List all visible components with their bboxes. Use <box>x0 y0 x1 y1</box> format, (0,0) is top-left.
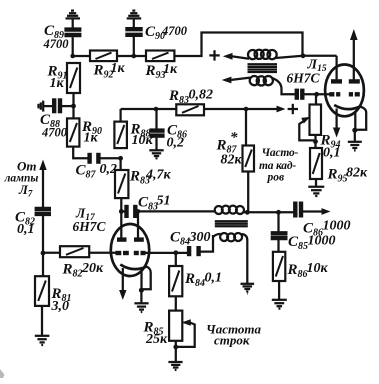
plus sign top left of transformer T1 <box>209 50 219 60</box>
transformer T1 bottom winding <box>250 76 273 86</box>
svg-text:1к: 1к <box>111 61 126 76</box>
wire T2 bottom coil right to chassis ground <box>242 234 248 283</box>
chassis ground down at T2 <box>241 284 255 294</box>
L17 anode right <box>134 237 144 241</box>
tube U-P15 envelope <box>325 65 364 117</box>
capacitor C88 <box>40 98 72 139</box>
wire T1 top coil to node <box>276 56 304 58</box>
wire R93 to top corner rail <box>174 33 302 57</box>
capacitor C85 1000 <box>271 233 336 252</box>
wire rail to R87 <box>245 109 247 146</box>
wire node to anode lead <box>303 55 337 57</box>
ground under R81 <box>35 336 50 345</box>
L17 cathode left lead arrow down <box>122 268 124 291</box>
svg-text:*: * <box>230 130 238 146</box>
wire R87 to T2 <box>247 172 249 213</box>
resistor R85 25k (pot) <box>143 311 183 347</box>
wire T2 top coil right to node <box>244 211 294 213</box>
input arrow from lamp L7 <box>39 160 46 171</box>
svg-text:3,0: 3,0 <box>51 299 70 314</box>
svg-text:10к: 10к <box>307 261 329 276</box>
svg-text:4700: 4700 <box>43 37 70 51</box>
grid capacitor of tube P15 <box>297 89 303 100</box>
node C83 right <box>136 209 141 214</box>
svg-text:1к: 1к <box>163 62 178 77</box>
node T2/R87 <box>245 210 250 215</box>
ground under R86 <box>272 300 287 309</box>
node R85 bottom <box>173 345 178 350</box>
wire C89 to node <box>72 37 74 56</box>
wire node to R92 <box>73 55 90 57</box>
capacitor C83 51 <box>127 194 171 219</box>
capacitor C84 300 <box>170 230 211 257</box>
svg-text:82к: 82к <box>346 166 368 181</box>
resistor R86 10k <box>273 252 329 281</box>
ground under R85 <box>168 362 182 370</box>
L17 grid right dashes <box>134 251 146 255</box>
L17 cathode arc <box>120 265 147 270</box>
ground under L17 cathode <box>134 303 148 312</box>
node under C90 <box>132 54 137 59</box>
capacitor C86 1000 <box>295 202 350 239</box>
svg-text:строк: строк <box>214 333 250 348</box>
svg-text:82к: 82к <box>221 153 243 168</box>
resistor R90 1k <box>67 118 102 146</box>
resistor R88 10k <box>114 122 153 149</box>
node grid/R94 <box>314 92 319 97</box>
svg-text:4700: 4700 <box>41 126 68 140</box>
wire C90 top stem <box>133 19 135 27</box>
node P15 cathode ground <box>352 128 357 133</box>
node C85 <box>276 210 281 215</box>
wire C89 top stem <box>72 19 74 27</box>
resistor R82 20k <box>60 246 104 279</box>
wire R91 bottom to C88 node <box>72 93 74 118</box>
R85 wiper arrow <box>181 319 191 326</box>
transformer T1 top winding <box>248 50 277 60</box>
tube U-L17 envelope <box>111 224 149 276</box>
wire R88 top to rail <box>119 109 121 122</box>
wire to ground <box>140 290 142 303</box>
arrow left T1 secondary <box>222 77 232 84</box>
P15 grid right dashes <box>349 92 360 96</box>
node transformer1/anode <box>301 53 306 58</box>
R85 bottom stem <box>175 341 177 361</box>
svg-text:4,7к: 4,7к <box>145 168 172 183</box>
svg-text:0,1: 0,1 <box>17 222 35 237</box>
wire node A to R82 <box>43 252 60 254</box>
wire C84 right to T2 bottom coil <box>200 235 213 252</box>
wire C86a stem <box>155 109 157 129</box>
svg-text:От: От <box>17 159 37 174</box>
node R87 on rail <box>244 107 249 112</box>
wire R90 bottom to C87 <box>73 147 87 159</box>
node A (C82/R82/R81) <box>41 251 46 256</box>
L17 cathode straight lead <box>140 272 142 291</box>
wire grid node to R84 <box>175 253 177 266</box>
P15 cathode left lead arrow down <box>335 109 337 130</box>
wire L17 right grid lead <box>146 252 188 254</box>
wire T1 bottom coil right to grid cap <box>273 78 296 94</box>
svg-text:1к: 1к <box>84 131 99 146</box>
svg-text:1000: 1000 <box>308 234 336 249</box>
svg-text:300: 300 <box>189 230 211 245</box>
capacitor C86 0,2 <box>149 123 187 151</box>
ground under R95 <box>308 187 324 196</box>
wire to ground <box>354 130 356 141</box>
P15 cathode right loop <box>356 107 367 130</box>
wire C82 to node A <box>42 216 44 253</box>
node C83 left <box>119 209 124 214</box>
shield marks left of C88 <box>39 101 44 112</box>
capacitor C87 0,2 <box>76 153 118 181</box>
node L17 cathode ground <box>139 288 144 293</box>
svg-text:Часто-: Часто- <box>262 147 299 159</box>
capacitor C82 0,1 <box>15 209 51 237</box>
resistor R95 82k <box>310 148 368 185</box>
wire node A to R81 <box>42 253 44 276</box>
node R94/R95 <box>313 139 318 144</box>
resistor R81 3,0 <box>35 276 72 314</box>
node C88/R90 <box>71 104 76 109</box>
svg-text:ров: ров <box>267 172 285 184</box>
svg-text:20к: 20к <box>81 261 104 276</box>
transformer T2 core <box>215 221 248 226</box>
scan artifact bottom-left corner <box>0 369 5 378</box>
L17 anode left lead <box>120 211 122 237</box>
plus sign mid <box>288 104 298 114</box>
node C86a on rail <box>154 107 159 112</box>
R85 wiper wire <box>177 323 195 347</box>
svg-text:1к: 1к <box>50 76 65 91</box>
wire C86 to arrow right <box>303 210 322 212</box>
wire R82 to tube grid <box>89 252 115 254</box>
resistor R92 1k <box>90 51 126 81</box>
wire C86a to ground <box>155 138 157 150</box>
wire grid cap to tube grid <box>304 93 330 95</box>
wire C90 to rail <box>133 37 135 56</box>
wire R92 to node C90 <box>117 55 146 57</box>
P15 anode right lead arrow up <box>353 38 355 79</box>
svg-text:25к: 25к <box>145 332 168 347</box>
node under C89 <box>70 54 75 59</box>
resistor R94 0,1 (pot) <box>310 105 341 161</box>
svg-text:1000: 1000 <box>323 219 351 234</box>
node C87/R88/R83 <box>118 156 123 161</box>
P15 anode right <box>349 79 360 83</box>
wire C83 left <box>121 210 124 212</box>
svg-text:0,1: 0,1 <box>205 271 223 286</box>
resistor R87* 82k <box>216 130 255 172</box>
R94 bottom stem <box>314 135 316 148</box>
wire arrow to T1 bottom coil <box>230 78 250 80</box>
node grid/R84/C84 <box>173 250 178 255</box>
resistor R83 0,82 <box>168 88 213 116</box>
capacitor C90 <box>125 24 187 42</box>
svg-text:6Н7С: 6Н7С <box>287 71 321 86</box>
svg-text:51: 51 <box>157 194 171 209</box>
mid rail <box>121 108 177 110</box>
chassis symbol top 2 <box>127 11 142 19</box>
P15 grid left dashes <box>329 92 340 96</box>
wire R86 to ground <box>278 281 280 299</box>
wire R81 to ground <box>41 306 43 335</box>
transformer T1 core <box>248 64 278 72</box>
arrow right on rail <box>277 106 286 113</box>
R94 wiper wire <box>299 121 314 141</box>
wire arrow to T1 top coil <box>232 56 250 59</box>
P15 cathode arc <box>334 105 361 109</box>
ground under P15 cathode <box>348 142 362 151</box>
wire grid node to R94 <box>315 94 317 104</box>
resistor R83 4,7k <box>115 168 172 199</box>
wire node C87 to R83 <box>119 158 121 170</box>
svg-text:0,82: 0,82 <box>189 88 214 103</box>
wire R84 to R85 <box>175 296 177 310</box>
svg-text:та кад-: та кад- <box>259 160 296 172</box>
wire R95 to ground <box>315 179 317 186</box>
svg-text:0,2: 0,2 <box>167 136 185 151</box>
wire C85 to R86 <box>277 240 279 252</box>
resistor R91 1k <box>47 63 81 93</box>
resistor R84 0,1 <box>169 266 222 296</box>
arrow left T1 primary top <box>223 53 233 60</box>
L17 cathode right loop <box>142 267 151 290</box>
wire T2 bottom coil left lead <box>213 234 221 237</box>
wire C87 to node <box>100 157 120 159</box>
R94 wiper arrow <box>301 117 310 124</box>
wire C83 right to T2 <box>138 210 215 212</box>
transformer T2 top winding <box>215 206 244 214</box>
chassis symbol top 1 <box>66 11 81 19</box>
P15 anode left <box>331 79 342 83</box>
ground under C86a <box>149 150 163 158</box>
rail R83 to arrow <box>204 108 278 110</box>
wire R83 to node C83 <box>120 198 122 211</box>
capacitor C89 <box>43 23 82 51</box>
L17 anode left <box>117 237 127 241</box>
P15 cathode straight lead <box>354 111 356 130</box>
L17 anode right lead <box>137 211 139 237</box>
L17 grid left dashes <box>116 251 129 255</box>
svg-text:0,1: 0,1 <box>323 146 341 161</box>
svg-text:4700: 4700 <box>161 24 188 38</box>
transformer T2 bottom winding <box>220 233 242 241</box>
wire node C85 down <box>277 212 279 231</box>
resistor R93 1k <box>145 51 179 82</box>
svg-text:6Н7С: 6Н7С <box>73 219 107 234</box>
P15 anode left lead <box>335 56 337 80</box>
